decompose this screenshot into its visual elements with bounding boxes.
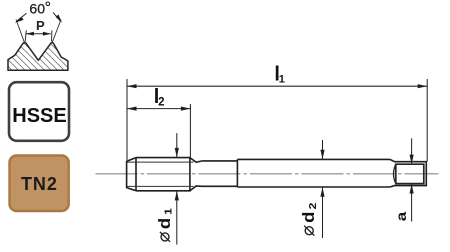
- svg-text:60: 60: [29, 0, 45, 16]
- arrowhead P left: [26, 32, 34, 36]
- label diameter d1 (rotated): [155, 207, 175, 242]
- thread minor diameter line top: [127, 161, 194, 163]
- 60-deg angle dimension arrow left: [15, 13, 27, 23]
- degree symbol circle: [46, 2, 50, 6]
- dimension a lower arrow: [410, 184, 414, 222]
- extension line left (l1/l2): [126, 79, 128, 160]
- extension line right (l1): [426, 79, 428, 162]
- arrowhead l1 left: [127, 84, 137, 88]
- thread minor diameter line bottom: [127, 185, 194, 187]
- svg-text:d1: d1: [155, 207, 175, 229]
- svg-text:l1: l1: [274, 64, 284, 86]
- pitch extension tick left: [25, 30, 26, 41]
- dimension d1 upper arrow: [175, 133, 179, 157]
- flank extension line right: [52, 20, 61, 44]
- extension line thread end (l2): [189, 104, 191, 158]
- svg-text:l2: l2: [154, 86, 165, 108]
- arrowhead P right: [43, 32, 51, 36]
- thread profile symbol: hatched material cross-section with two crests and 60-deg V groove: [8, 42, 68, 70]
- arrowhead l2 left: [127, 107, 137, 111]
- TN2 coating badge: [10, 155, 69, 211]
- pitch dimension line P: [26, 33, 50, 35]
- arrowhead l1 right: [418, 84, 428, 88]
- dimension d1 lower arrow: [175, 191, 179, 245]
- svg-text:d2: d2: [299, 201, 319, 223]
- arrowhead l2 right: [181, 107, 191, 111]
- dimension line l1: [127, 85, 427, 87]
- dimension d2 upper arrow: [320, 140, 324, 159]
- dimension a upper arrow: [410, 138, 414, 164]
- svg-text:a: a: [394, 211, 409, 221]
- 60-deg angle dimension arrow right: [53, 12, 62, 22]
- flank extension line left: [16, 20, 25, 44]
- HSSE material badge: [9, 82, 69, 141]
- neck outline: [202, 161, 237, 186]
- shank outline: [237, 159, 390, 187]
- svg-text:HSSE: HSSE: [12, 105, 66, 127]
- drive square flats: [396, 164, 424, 183]
- dimension d2 lower arrow: [320, 187, 324, 238]
- svg-text:TN2: TN2: [21, 174, 58, 194]
- drive square runout arc: [394, 164, 396, 183]
- shank end taper and end face: [390, 159, 426, 187]
- step neck-to-shank: [236, 159, 238, 187]
- tap axis centerline: [96, 173, 439, 175]
- threaded section outline with chamfered ends: [127, 158, 202, 191]
- pitch extension tick right: [51, 30, 53, 41]
- svg-text:P: P: [36, 18, 45, 33]
- dimension line l2: [127, 108, 190, 110]
- label diameter d2 (rotated): [299, 201, 319, 235]
